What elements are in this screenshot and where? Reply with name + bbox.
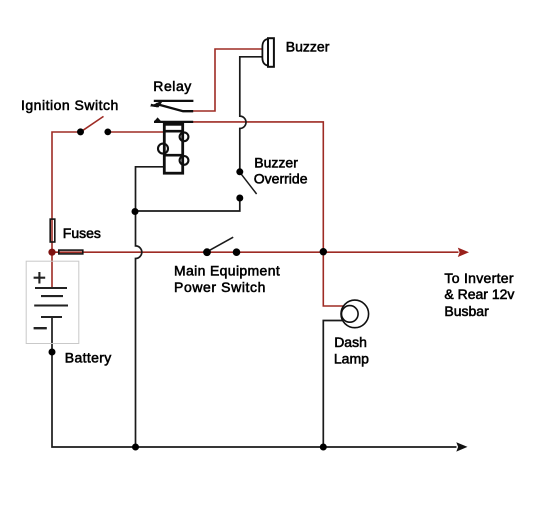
svg-text:Ignition Switch: Ignition Switch [21, 97, 119, 113]
svg-text:Fuses: Fuses [63, 225, 101, 241]
svg-text:Relay: Relay [153, 78, 192, 94]
svg-text:Battery: Battery [65, 349, 112, 365]
svg-text:Dash: Dash [334, 334, 367, 350]
svg-text:Power Switch: Power Switch [174, 279, 266, 295]
svg-text:Lamp: Lamp [334, 351, 369, 367]
svg-text:To Inverter: To Inverter [444, 270, 513, 286]
svg-text:Buzzer: Buzzer [254, 155, 298, 171]
svg-text:Main Equipment: Main Equipment [174, 262, 280, 278]
svg-text:Busbar: Busbar [444, 303, 489, 319]
svg-text:Override: Override [254, 171, 308, 187]
svg-text:& Rear 12v: & Rear 12v [444, 286, 514, 302]
svg-text:Buzzer: Buzzer [286, 38, 330, 54]
